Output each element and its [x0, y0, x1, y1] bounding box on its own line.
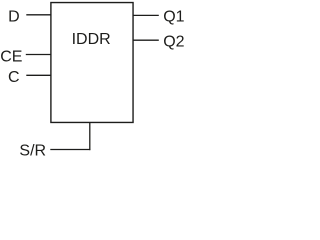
svg-text:CE: CE [0, 49, 22, 66]
IDDR block label [72, 31, 111, 48]
svg-text:Q2: Q2 [163, 34, 184, 51]
pin label CE [0, 49, 22, 66]
pin label Q2 [163, 34, 184, 51]
svg-text:C: C [8, 69, 20, 86]
wire D to block [26, 14, 51, 16]
wire C to block [26, 74, 51, 76]
pin label D [8, 9, 20, 26]
pin label S/R [19, 142, 46, 159]
svg-text:S/R: S/R [19, 142, 46, 158]
pin label Q1 [163, 8, 184, 25]
svg-text:D: D [8, 9, 20, 26]
wire CE to block [26, 54, 51, 56]
wire block to Q1 [133, 14, 159, 16]
svg-text:IDDR: IDDR [72, 31, 111, 48]
IDDR block U1 body [51, 3, 133, 123]
pin label C [8, 69, 20, 86]
wire block to Q2 [133, 39, 159, 41]
wire S/R horizontal segment [50, 149, 90, 151]
svg-text:Q1: Q1 [163, 8, 184, 25]
wire S/R vertical segment into block bottom [89, 122, 91, 150]
